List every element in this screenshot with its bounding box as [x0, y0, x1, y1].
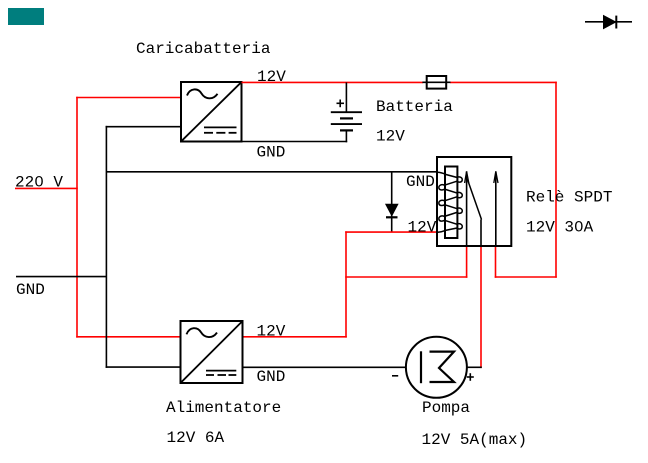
wire charger GND to battery minus	[242, 141, 348, 143]
label Batteria	[376, 98, 453, 116]
node GND left label	[16, 281, 45, 299]
svg-text:12V: 12V	[257, 323, 286, 341]
wire red vertical 12V riser	[345, 231, 347, 337]
label Relè SPDT	[526, 188, 612, 206]
label Alimentatore	[166, 399, 281, 417]
svg-text:Batteria: Batteria	[376, 98, 453, 116]
pin 12V relay coil label	[408, 219, 437, 237]
wire black pump plus stub	[467, 366, 482, 368]
svg-text:12V 30A: 12V 30A	[526, 219, 594, 237]
svg-text:12V: 12V	[376, 128, 405, 146]
svg-text:GND: GND	[257, 143, 286, 161]
wire red rail to alimentatore AC input	[76, 336, 181, 338]
svg-text:Pompa: Pompa	[422, 399, 470, 417]
wire red right rail down to relay level	[555, 82, 557, 278]
svg-text:Caricabatteria: Caricabatteria	[136, 40, 271, 58]
battery plus sign	[337, 100, 345, 108]
svg-text:Alimentatore: Alimentatore	[166, 399, 281, 417]
wire 220V stub	[15, 187, 78, 189]
transparent-color artifact square top-left	[8, 8, 44, 25]
svg-text:GND: GND	[257, 368, 286, 386]
wire red relay common terminal stub	[466, 246, 468, 278]
wire black GND line to relay coil	[106, 171, 437, 173]
wire red lower right horizontal to relay NO terminal	[495, 276, 557, 278]
alimentatore U2 box	[181, 321, 243, 383]
wire red 220V rail vertical	[76, 97, 78, 338]
wire black rail to alimentatore AC input	[106, 366, 181, 368]
svg-text:GND: GND	[406, 173, 435, 191]
svg-text:12V: 12V	[257, 68, 286, 86]
relay NC contact with arrow	[465, 171, 469, 246]
node 220 V label	[15, 174, 63, 192]
fuse F1	[422, 76, 450, 89]
diode D2 top right	[585, 16, 632, 29]
svg-text:Relè SPDT: Relè SPDT	[526, 188, 612, 206]
wire GND left stub	[16, 276, 107, 278]
relay pole terminal	[480, 220, 482, 247]
relay NO contact with arrow	[494, 171, 498, 246]
pin GND alimentatore label	[257, 368, 286, 386]
label 12V 30A	[526, 219, 594, 237]
diode D1 flyback vertical	[386, 172, 398, 232]
pin GND charger label	[257, 143, 286, 161]
wire black rail to charger AC input	[106, 126, 181, 128]
battery B1	[331, 82, 362, 142]
label 12V 5A(max)	[422, 431, 528, 449]
zero glyph dot masks to mimic plain Courier zeros	[38, 180, 581, 229]
wire red branch to relay common terminal	[345, 276, 467, 278]
pump M1 motor circle	[406, 337, 467, 398]
pin GND relay coil label	[406, 173, 435, 191]
wire black AC-neutral rail vertical	[105, 126, 107, 368]
pin 12V charger output label	[257, 68, 286, 86]
svg-text:12V 5A(max): 12V 5A(max)	[422, 431, 528, 449]
svg-text:GND: GND	[16, 281, 45, 299]
wire red 12V bus from fuse to right rail	[450, 81, 557, 83]
svg-text:12V 6A: 12V 6A	[167, 429, 225, 447]
wire red relay pole to pump plus	[480, 246, 482, 368]
label Pompa	[422, 399, 470, 417]
svg-text:12V: 12V	[408, 219, 437, 237]
relay coil L1	[437, 167, 462, 239]
pump minus sign	[392, 375, 398, 377]
label Caricabatteria	[136, 40, 271, 58]
wire red alimentatore 12V output	[243, 336, 347, 338]
relay K1 box	[437, 157, 511, 246]
relay blade	[467, 179, 481, 220]
pump plus sign	[467, 373, 474, 381]
wire red rail to charger AC input	[76, 97, 181, 99]
charger U1 Caricabatteria box	[181, 82, 242, 142]
label 12V 6A	[167, 429, 225, 447]
label battery 12V	[376, 128, 405, 146]
wire red 12V to relay coil	[345, 231, 437, 233]
wire red relay NO terminal stub	[495, 246, 497, 278]
wire red 12V bus from charger to fuse	[242, 81, 424, 83]
pin 12V alimentatore label	[257, 323, 286, 341]
wire black alimentatore GND to pump	[243, 366, 407, 368]
